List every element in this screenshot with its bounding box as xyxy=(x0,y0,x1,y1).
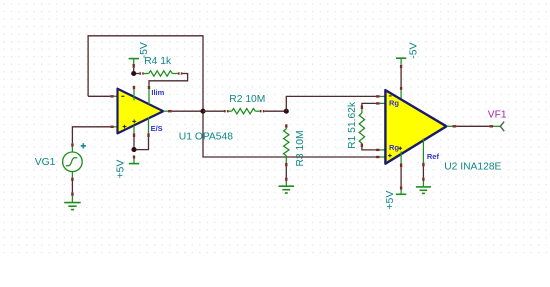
svg-text:Ilim: Ilim xyxy=(151,88,164,97)
svg-text:R4 1k: R4 1k xyxy=(144,56,172,67)
resistor R4 xyxy=(136,71,183,76)
svg-text:R1 51.62k: R1 51.62k xyxy=(347,101,358,149)
junction at R4/supply node xyxy=(131,71,136,76)
svg-text:Ref: Ref xyxy=(427,152,440,161)
svg-text:R3 10M: R3 10M xyxy=(295,130,306,166)
supply -5V above U1 xyxy=(129,59,139,68)
pin U2 Ref xyxy=(422,139,424,163)
wire U1 bottom pins to +5V xyxy=(134,137,149,150)
resistor R3 xyxy=(284,124,289,166)
svg-text:VF1: VF1 xyxy=(488,109,507,120)
resistor R1 xyxy=(359,103,385,149)
wire U1 output to junction xyxy=(172,110,203,112)
pin U2 in+ xyxy=(376,156,380,158)
svg-text:+5V: +5V xyxy=(115,160,127,179)
svg-text:-5V: -5V xyxy=(407,42,419,58)
svg-text:R2 10M: R2 10M xyxy=(229,94,265,105)
svg-text:U2 INA128E: U2 INA128E xyxy=(444,162,501,173)
junction node A xyxy=(284,109,289,114)
svg-text:U1 OPA548: U1 OPA548 xyxy=(179,131,233,142)
pin U2 V- xyxy=(400,152,402,164)
wire supply to junction xyxy=(133,68,135,74)
junction U1 output node xyxy=(200,109,205,114)
svg-text:E/S: E/S xyxy=(151,124,163,133)
wire R4 to Ilim pin xyxy=(149,74,188,86)
wire feedback loop from U1 output to inverting input and down to U2 in+ xyxy=(88,36,376,157)
ground below U2 Ref xyxy=(416,181,431,194)
junction U1 supply node xyxy=(131,147,136,152)
pin U1 output xyxy=(163,110,168,112)
wire -5V supply to U2 V+ pin xyxy=(400,68,402,87)
svg-text:+5V: +5V xyxy=(384,191,396,210)
supply +5V below U2 xyxy=(396,190,406,195)
pin U1 in- xyxy=(110,95,114,97)
wire VG1 to U1 noninverting input xyxy=(72,127,110,144)
wire inverting input horizontal xyxy=(88,95,110,97)
resistor R2 xyxy=(203,109,286,114)
ground below VG1 xyxy=(64,192,81,209)
pin U2 V+ xyxy=(400,87,402,90)
wire node A up to U2 in- xyxy=(286,96,376,111)
supply +5V below U1 xyxy=(129,156,139,164)
svg-text:Rg: Rg xyxy=(389,143,399,152)
wire U2 Ref to ground xyxy=(422,166,424,177)
wire U2 output to VF1 xyxy=(456,125,489,127)
svg-text:Rg: Rg xyxy=(389,99,399,108)
ground below R3 xyxy=(279,178,295,194)
generator VG1 xyxy=(63,143,86,181)
svg-text:VG1: VG1 xyxy=(35,157,56,168)
pin U2 output xyxy=(447,125,453,127)
pin U2 in- xyxy=(376,95,380,97)
op-amp U1 OPA548 xyxy=(118,86,164,137)
wire U2 V- to +5V supply xyxy=(400,167,402,186)
wire VG1 to ground xyxy=(71,181,73,192)
voltage pin VF1 xyxy=(489,122,504,132)
supply -5V above U2 xyxy=(396,58,406,68)
instrumentation amp U2 INA128E xyxy=(385,90,446,164)
wire R3 to ground xyxy=(285,166,287,177)
pin U1 in+ xyxy=(110,126,114,128)
